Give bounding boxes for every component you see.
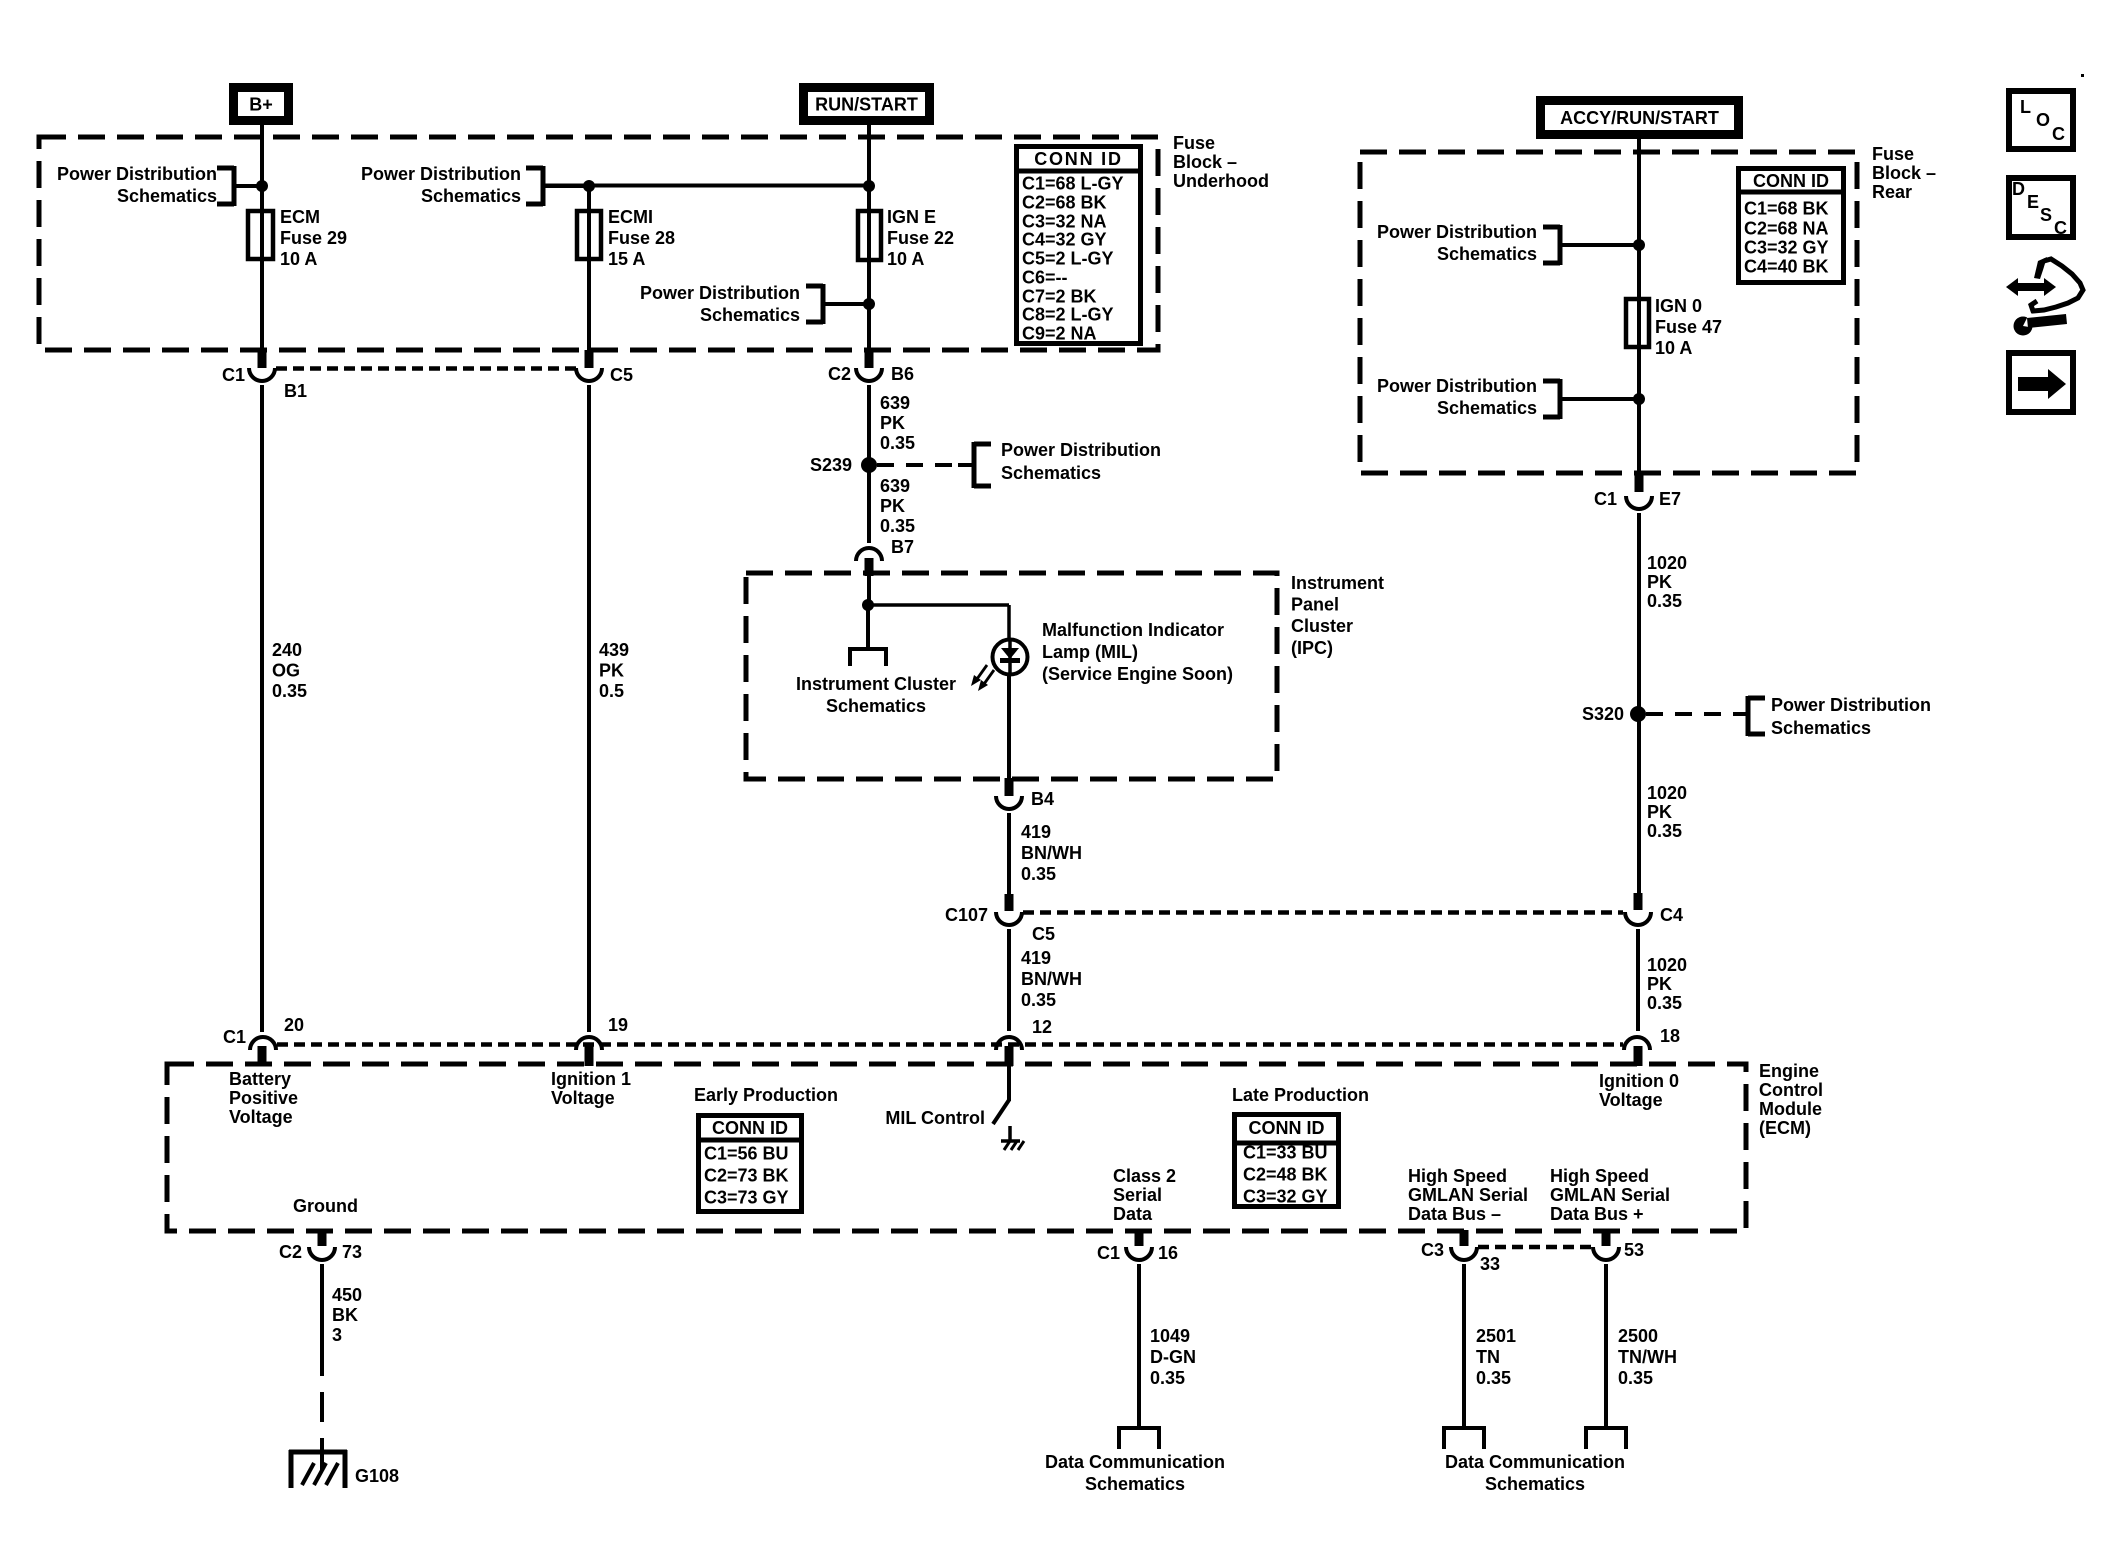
wire 439 PK ignition 1 feed — [587, 385, 591, 1032]
svg-text:C2=68 BK: C2=68 BK — [1022, 193, 1107, 213]
svg-text:Power Distribution: Power Distribution — [1377, 222, 1537, 242]
label 240 OG 0.35 — [272, 640, 307, 701]
wire 1020 PK upper — [1637, 513, 1641, 894]
svg-text:Class 2: Class 2 — [1113, 1166, 1176, 1186]
svg-text:Module: Module — [1759, 1099, 1822, 1119]
callout power distribution schematics 2 — [361, 164, 589, 206]
svg-text:53: 53 — [1624, 1240, 1644, 1260]
svg-text:Power Distribution: Power Distribution — [1771, 695, 1931, 715]
junction node RUN/START top — [863, 180, 875, 192]
junction node rear bottom — [1633, 393, 1645, 405]
label data communication schematics 2 — [1445, 1452, 1625, 1494]
label C2 73 — [279, 1242, 362, 1262]
wire ECMI fuse drop — [587, 186, 591, 351]
svg-text:TN/WH: TN/WH — [1618, 1347, 1677, 1367]
svg-text:C1=68 L-GY: C1=68 L-GY — [1022, 174, 1124, 194]
callout power distribution schematics 1 — [57, 164, 262, 206]
svg-text:(Service Engine Soon): (Service Engine Soon) — [1042, 664, 1233, 684]
connector C1 E7 arc — [1626, 496, 1652, 509]
label C1 E7 — [1594, 489, 1681, 509]
svg-text:C1=68 BK: C1=68 BK — [1744, 199, 1829, 219]
label 439 PK 0.5 — [599, 640, 629, 701]
wire B+ to fuse 29 — [260, 125, 264, 351]
label fuse 22 — [887, 207, 954, 269]
svg-text:Serial: Serial — [1113, 1185, 1162, 1205]
svg-text:CONN ID: CONN ID — [1034, 149, 1123, 169]
conn id table early production — [698, 1116, 802, 1212]
svg-text:Data Communication: Data Communication — [1445, 1452, 1625, 1472]
svg-text:C3: C3 — [1421, 1240, 1444, 1260]
wire 450 BK dashed — [320, 1392, 324, 1452]
wire lamp to B4 — [1007, 674, 1011, 779]
wire 419 BN/WH lower — [1007, 929, 1011, 1031]
svg-text:PK: PK — [880, 496, 905, 516]
icon pointer outline — [2031, 257, 2083, 311]
label C1 B1 — [222, 365, 307, 401]
svg-text:639: 639 — [880, 476, 910, 496]
svg-text:C6=--: C6=-- — [1022, 268, 1068, 288]
MIL lamp — [993, 640, 1028, 675]
connector pin 20 pin — [258, 1046, 267, 1066]
svg-text:(ECM): (ECM) — [1759, 1118, 1811, 1138]
svg-text:G108: G108 — [355, 1466, 399, 1486]
label data communication schematics 1 — [1045, 1452, 1225, 1494]
svg-text:Schematics: Schematics — [1437, 244, 1537, 264]
svg-text:450: 450 — [332, 1285, 362, 1305]
label C4 — [1660, 905, 1683, 925]
svg-text:O: O — [2036, 110, 2050, 130]
svg-text:Block –: Block – — [1872, 163, 1936, 183]
svg-text:Data Communication: Data Communication — [1045, 1452, 1225, 1472]
svg-text:CONN ID: CONN ID — [712, 1118, 788, 1138]
label early production — [694, 1085, 838, 1105]
svg-text:C1: C1 — [222, 365, 245, 385]
svg-text:C107: C107 — [945, 905, 988, 925]
wire 1049 D-GN — [1137, 1264, 1141, 1428]
fuse block rear enclosure — [1360, 152, 1857, 473]
svg-text:16: 16 — [1158, 1243, 1178, 1263]
label 639 PK 0.35 lower — [880, 476, 915, 536]
svg-text:Power Distribution: Power Distribution — [1001, 440, 1161, 460]
icon LOC box — [2009, 91, 2073, 149]
svg-text:C: C — [2052, 124, 2065, 144]
label B4 — [1031, 789, 1054, 809]
svg-text:C1=56 BU: C1=56 BU — [704, 1144, 789, 1164]
splice S320 — [1630, 706, 1646, 722]
label 2501 TN 0.35 — [1476, 1326, 1516, 1388]
svg-text:0.35: 0.35 — [1150, 1368, 1185, 1388]
svg-text:C4=32 GY: C4=32 GY — [1022, 230, 1107, 250]
connector C2 B6 arc — [856, 368, 882, 381]
svg-text:BN/WH: BN/WH — [1021, 843, 1082, 863]
label 53 — [1624, 1240, 1644, 1260]
wire IPC feed — [867, 576, 871, 605]
svg-text:C2=48 BK: C2=48 BK — [1243, 1165, 1328, 1185]
stray dot — [2081, 74, 2084, 77]
wire 240 OG battery feed — [260, 385, 264, 1032]
svg-text:D-GN: D-GN — [1150, 1347, 1196, 1367]
label high speed gmlan serial data bus plus — [1550, 1166, 1670, 1224]
connector C1 E7 pin — [1635, 472, 1644, 492]
svg-text:439: 439 — [599, 640, 629, 660]
svg-text:0.35: 0.35 — [1021, 990, 1056, 1010]
svg-text:(IPC): (IPC) — [1291, 638, 1333, 658]
label late production — [1232, 1085, 1369, 1105]
label fuse 47 — [1655, 296, 1722, 358]
continuation bracket data communication 3 — [1586, 1426, 1626, 1449]
junction node IPC — [862, 599, 874, 611]
fuse block underhood enclosure — [39, 137, 1158, 350]
connector C2 73 pin — [318, 1230, 327, 1246]
wire 639 PK upper — [867, 385, 871, 543]
svg-text:Fuse: Fuse — [1173, 133, 1215, 153]
svg-text:Cluster: Cluster — [1291, 616, 1353, 636]
callout power distribution schematics 3 — [640, 283, 869, 325]
label battery positive voltage — [229, 1069, 298, 1127]
junction node below fuse 22 — [863, 298, 875, 310]
label malfunction indicator lamp — [1042, 620, 1233, 684]
svg-text:10 A: 10 A — [887, 249, 924, 269]
svg-text:ECM: ECM — [280, 207, 320, 227]
svg-text:Fuse: Fuse — [1872, 144, 1914, 164]
svg-text:Power Distribution: Power Distribution — [361, 164, 521, 184]
svg-text:C3=32 NA: C3=32 NA — [1022, 212, 1107, 232]
svg-text:BN/WH: BN/WH — [1021, 969, 1082, 989]
svg-text:C1=33 BU: C1=33 BU — [1243, 1143, 1328, 1163]
svg-text:Power Distribution: Power Distribution — [57, 164, 217, 184]
svg-text:3: 3 — [332, 1325, 342, 1345]
svg-text:12: 12 — [1032, 1017, 1052, 1037]
svg-text:E: E — [2027, 192, 2039, 212]
svg-text:Late Production: Late Production — [1232, 1085, 1369, 1105]
connector B4 arc — [996, 796, 1022, 809]
fuse F28 ECMI 15A — [577, 211, 601, 259]
svg-text:RUN/START: RUN/START — [815, 95, 918, 115]
wire 450 BK — [320, 1264, 324, 1376]
connector C5 pin — [585, 350, 594, 368]
svg-text:Schematics: Schematics — [1485, 1474, 1585, 1494]
svg-text:C1: C1 — [1097, 1243, 1120, 1263]
svg-text:C3=73 GY: C3=73 GY — [704, 1188, 789, 1208]
svg-text:PK: PK — [880, 413, 905, 433]
connector 18 pin — [1634, 1046, 1643, 1066]
callout dashes S239 — [877, 463, 974, 467]
svg-text:Instrument: Instrument — [1291, 573, 1384, 593]
wire IPC horizontal to lamp — [868, 605, 1009, 640]
svg-text:0.35: 0.35 — [880, 516, 915, 536]
svg-text:PK: PK — [599, 661, 624, 681]
svg-text:1020: 1020 — [1647, 955, 1687, 975]
label 1020 PK 0.35 upper — [1647, 553, 1687, 611]
svg-text:15 A: 15 A — [608, 249, 645, 269]
wire 419 BN/WH upper — [1007, 813, 1011, 895]
connector C3 33 arc — [1451, 1247, 1477, 1260]
svg-text:Underhood: Underhood — [1173, 171, 1269, 191]
svg-text:High Speed: High Speed — [1408, 1166, 1507, 1186]
switch MIL control blade — [993, 1100, 1009, 1124]
continuation bracket instrument cluster — [850, 647, 886, 666]
connector 12 pin — [1005, 1046, 1014, 1066]
wire RUN/START to fuse 22 — [867, 125, 871, 351]
icon forward arrow box — [2009, 353, 2073, 412]
svg-text:Data Bus –: Data Bus – — [1408, 1204, 1501, 1224]
svg-text:BK: BK — [332, 1305, 358, 1325]
dotted connector line C1 to C5 — [276, 366, 576, 371]
svg-text:Power Distribution: Power Distribution — [1377, 376, 1537, 396]
label fuse 29 — [280, 207, 347, 269]
svg-text:20: 20 — [284, 1015, 304, 1035]
svg-text:C: C — [2054, 218, 2067, 238]
label C5 — [610, 365, 633, 385]
svg-text:73: 73 — [342, 1242, 362, 1262]
connector C4 arc — [1625, 912, 1651, 925]
svg-text:C2: C2 — [279, 1242, 302, 1262]
wire IC branch — [866, 605, 870, 649]
svg-text:Fuse 47: Fuse 47 — [1655, 317, 1722, 337]
svg-text:0.35: 0.35 — [1647, 821, 1682, 841]
svg-text:Battery: Battery — [229, 1069, 291, 1089]
svg-text:240: 240 — [272, 640, 302, 660]
svg-text:S239: S239 — [810, 455, 852, 475]
label G108 — [355, 1466, 399, 1486]
svg-text:TN: TN — [1476, 1347, 1500, 1367]
svg-text:Voltage: Voltage — [1599, 1090, 1663, 1110]
svg-text:19: 19 — [608, 1015, 628, 1035]
junction node on B+ wire — [256, 180, 268, 192]
svg-text:B+: B+ — [249, 95, 273, 115]
svg-text:1049: 1049 — [1150, 1326, 1190, 1346]
ground MIL control — [1001, 1126, 1024, 1150]
svg-text:S: S — [2040, 205, 2052, 225]
svg-text:0.35: 0.35 — [1021, 864, 1056, 884]
svg-text:B7: B7 — [891, 537, 914, 557]
svg-text:2501: 2501 — [1476, 1326, 1516, 1346]
connector pin 20 arc — [250, 1037, 276, 1050]
svg-text:Instrument Cluster: Instrument Cluster — [796, 674, 956, 694]
svg-text:Engine: Engine — [1759, 1061, 1819, 1081]
svg-text:Schematics: Schematics — [117, 186, 217, 206]
icon DESC box — [2009, 178, 2073, 238]
wire 2500 TN/WH — [1604, 1264, 1608, 1428]
label ignition 1 voltage — [551, 1069, 631, 1108]
continuation bracket data communication 1 — [1119, 1426, 1159, 1449]
dotted connector line C3 to 53 — [1478, 1245, 1592, 1250]
svg-text:IGN 0: IGN 0 — [1655, 296, 1702, 316]
power feed box B+ — [234, 88, 289, 121]
svg-text:C4: C4 — [1660, 905, 1683, 925]
connector C1 B1 pin — [258, 350, 267, 368]
svg-text:ECMI: ECMI — [608, 207, 653, 227]
svg-text:C5: C5 — [1032, 924, 1055, 944]
svg-text:Block –: Block – — [1173, 152, 1237, 172]
connector 53 arc — [1593, 1247, 1619, 1260]
svg-text:Ignition 0: Ignition 0 — [1599, 1071, 1679, 1091]
power feed box ACCY/RUN/START — [1541, 101, 1739, 135]
dotted connector line C107 to C4 — [1023, 910, 1623, 915]
svg-text:CONN ID: CONN ID — [1249, 1118, 1325, 1138]
label engine control module — [1759, 1061, 1823, 1138]
label 419 BN/WH 0.35 upper — [1021, 822, 1082, 884]
svg-text:Voltage: Voltage — [551, 1088, 615, 1108]
connector C1 16 pin — [1135, 1230, 1144, 1246]
icon wrench — [2014, 312, 2068, 336]
svg-text:Schematics: Schematics — [826, 696, 926, 716]
power feed box RUN/START — [804, 88, 930, 121]
label 12 — [1032, 1017, 1052, 1037]
svg-text:Control: Control — [1759, 1080, 1823, 1100]
svg-text:33: 33 — [1480, 1254, 1500, 1274]
junction node rear top — [1633, 239, 1645, 251]
label 2500 TN/WH 0.35 — [1618, 1326, 1677, 1388]
svg-text:GMLAN Serial: GMLAN Serial — [1550, 1185, 1670, 1205]
callout bracket S239 power distribution — [974, 440, 1161, 488]
label C1 16 — [1097, 1243, 1178, 1263]
svg-text:Early Production: Early Production — [694, 1085, 838, 1105]
svg-text:Schematics: Schematics — [700, 305, 800, 325]
svg-text:0.5: 0.5 — [599, 681, 624, 701]
wire 1020 PK lower — [1636, 929, 1640, 1031]
svg-text:B1: B1 — [284, 381, 307, 401]
svg-text:S320: S320 — [1582, 704, 1624, 724]
svg-text:Lamp (MIL): Lamp (MIL) — [1042, 642, 1138, 662]
label fuse block rear — [1872, 144, 1936, 202]
svg-text:D: D — [2012, 179, 2025, 199]
svg-text:Schematics: Schematics — [1085, 1474, 1185, 1494]
label C2 B6 — [828, 364, 914, 384]
connector C3 33 pin — [1460, 1230, 1469, 1246]
svg-text:C2=73 BK: C2=73 BK — [704, 1166, 789, 1186]
label high speed gmlan serial data bus minus — [1408, 1166, 1528, 1224]
svg-text:0.35: 0.35 — [880, 433, 915, 453]
svg-text:C9=2 NA: C9=2 NA — [1022, 324, 1097, 344]
continuation bracket data communication 2 — [1444, 1426, 1484, 1449]
label 639 PK 0.35 upper — [880, 393, 915, 453]
connector C2 B6 pin — [865, 350, 874, 368]
label 1020 PK 0.35 lower — [1647, 955, 1687, 1013]
label 450 BK 3 — [332, 1285, 362, 1345]
svg-text:Schematics: Schematics — [1771, 718, 1871, 738]
connector 53 pin — [1602, 1230, 1611, 1246]
svg-text:C3=32 GY: C3=32 GY — [1744, 238, 1829, 258]
conn id table late production — [1234, 1115, 1339, 1207]
wire 2501 TN — [1462, 1264, 1466, 1428]
svg-text:Ignition 1: Ignition 1 — [551, 1069, 631, 1089]
svg-text:639: 639 — [880, 393, 910, 413]
svg-text:ACCY/RUN/START: ACCY/RUN/START — [1560, 108, 1719, 128]
callout dashes S320 — [1646, 712, 1748, 716]
callout power distribution schematics rear 1 — [1377, 222, 1639, 265]
icon double arrow — [2006, 278, 2056, 296]
connector C1 B1 arc — [249, 368, 275, 381]
svg-text:Data Bus +: Data Bus + — [1550, 1204, 1644, 1224]
label instrument panel cluster — [1291, 573, 1384, 658]
callout power distribution schematics rear 2 — [1377, 376, 1639, 419]
wire MIL control — [1007, 1066, 1011, 1101]
svg-text:C3=32 GY: C3=32 GY — [1243, 1187, 1328, 1207]
junction node ECMI — [583, 180, 595, 192]
engine control module enclosure — [167, 1064, 1746, 1231]
fuse F47 IGN 0 10A — [1626, 299, 1649, 347]
svg-text:10 A: 10 A — [1655, 338, 1692, 358]
svg-text:PK: PK — [1647, 974, 1672, 994]
svg-text:CONN ID: CONN ID — [1753, 171, 1829, 191]
MIL lamp light arrows — [971, 665, 994, 691]
svg-text:L: L — [2020, 97, 2031, 117]
connector 12 arc — [996, 1037, 1022, 1050]
svg-text:C5=2 L-GY: C5=2 L-GY — [1022, 249, 1114, 269]
svg-text:Panel: Panel — [1291, 595, 1339, 615]
label instrument cluster schematics — [796, 674, 956, 716]
svg-text:Power Distribution: Power Distribution — [640, 283, 800, 303]
label ground — [293, 1196, 358, 1216]
svg-text:0.35: 0.35 — [272, 681, 307, 701]
svg-text:1020: 1020 — [1647, 553, 1687, 573]
connector pin 19 pin — [585, 1046, 594, 1066]
svg-text:0.35: 0.35 — [1476, 1368, 1511, 1388]
conn id table underhood — [1016, 147, 1141, 344]
svg-text:B6: B6 — [891, 364, 914, 384]
wire horizontal feed to ECMI and RUN/START — [543, 184, 869, 188]
svg-text:C4=40 BK: C4=40 BK — [1744, 257, 1829, 277]
conn id table rear — [1738, 169, 1844, 283]
svg-text:10 A: 10 A — [280, 249, 317, 269]
svg-text:MIL Control: MIL Control — [885, 1108, 985, 1128]
svg-text:C2=68 NA: C2=68 NA — [1744, 219, 1829, 239]
svg-text:C2: C2 — [828, 364, 851, 384]
label 1049 D-GN 0.35 — [1150, 1326, 1196, 1388]
svg-text:Voltage: Voltage — [229, 1107, 293, 1127]
connector pin 19 arc — [576, 1037, 602, 1050]
svg-text:419: 419 — [1021, 948, 1051, 968]
connector C107 C5 pin — [1005, 894, 1014, 911]
svg-text:0.35: 0.35 — [1618, 1368, 1653, 1388]
svg-text:C5: C5 — [610, 365, 633, 385]
svg-text:IGN E: IGN E — [887, 207, 936, 227]
wire ACCY to fuse 47 — [1637, 139, 1641, 473]
connector C2 73 arc — [309, 1247, 335, 1260]
connector C107 C5 arc — [996, 912, 1022, 925]
fuse F29 ECM 10A — [248, 211, 273, 259]
svg-text:Positive: Positive — [229, 1088, 298, 1108]
svg-text:PK: PK — [1647, 572, 1672, 592]
svg-text:0.35: 0.35 — [1647, 993, 1682, 1013]
ground G108 — [289, 1450, 347, 1488]
svg-text:Fuse 29: Fuse 29 — [280, 228, 347, 248]
callout bracket S320 power distribution — [1748, 695, 1931, 738]
label C1 20 — [223, 1015, 304, 1047]
fuse F22 IGN E 10A — [858, 211, 881, 260]
svg-text:1020: 1020 — [1647, 783, 1687, 803]
label fuse 28 — [608, 207, 675, 269]
svg-text:B4: B4 — [1031, 789, 1054, 809]
connector C5 arc — [576, 368, 602, 381]
connector 18 arc — [1624, 1037, 1650, 1050]
svg-text:PK: PK — [1647, 802, 1672, 822]
connector B7 pin — [865, 558, 874, 576]
connector B4 pin — [1005, 778, 1014, 796]
svg-text:Ground: Ground — [293, 1196, 358, 1216]
connector B7 arc — [856, 548, 882, 561]
svg-text:E7: E7 — [1659, 489, 1681, 509]
label C107 C5 — [945, 905, 1055, 944]
svg-text:C1: C1 — [1594, 489, 1617, 509]
label 1020 PK 0.35 middle — [1647, 783, 1687, 841]
svg-text:C7=2 BK: C7=2 BK — [1022, 287, 1097, 307]
svg-text:Schematics: Schematics — [1001, 463, 1101, 483]
svg-text:0.35: 0.35 — [1647, 591, 1682, 611]
label ignition 0 voltage — [1599, 1071, 1679, 1110]
svg-text:C8=2 L-GY: C8=2 L-GY — [1022, 305, 1114, 325]
